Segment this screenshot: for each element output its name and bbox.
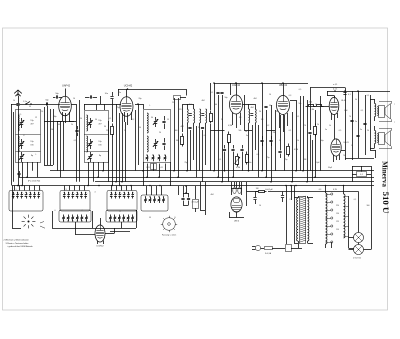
band filter FB2 box xyxy=(84,111,109,163)
svg-text:0,1: 0,1 xyxy=(219,159,222,161)
svg-text:1k: 1k xyxy=(13,100,15,102)
heater winding xyxy=(344,194,349,238)
rotary switch S2 xyxy=(22,215,45,229)
wire k16 xyxy=(304,88,311,182)
svg-text:0,5: 0,5 xyxy=(299,89,302,91)
wire k14 xyxy=(290,96,301,182)
svg-text:1M: 1M xyxy=(256,188,259,190)
wire bus 2 xyxy=(19,177,374,179)
resistor R3 xyxy=(210,111,213,171)
svg-text:2k: 2k xyxy=(317,124,319,126)
resistor R5 xyxy=(246,152,249,165)
tube V3 pins xyxy=(233,113,241,129)
IF transformer IF1 xyxy=(187,104,195,123)
wire group k29 xyxy=(231,83,285,177)
svg-text:0,3: 0,3 xyxy=(289,95,292,97)
svg-text:15: 15 xyxy=(167,119,169,121)
switch bank SB1 xyxy=(9,191,43,212)
wire k4 xyxy=(112,136,114,186)
svg-text:UCH42: UCH42 xyxy=(96,246,104,248)
capacitor C23 xyxy=(350,121,357,124)
svg-text:40: 40 xyxy=(58,124,60,126)
svg-text:0,1: 0,1 xyxy=(297,116,300,118)
wire k17 xyxy=(337,88,371,161)
svg-text:70: 70 xyxy=(349,116,351,118)
scatter labels 1 xyxy=(13,92,369,131)
svg-text:464: 464 xyxy=(211,194,214,196)
loudspeaker LS1 xyxy=(377,101,395,123)
svg-text:50: 50 xyxy=(80,118,82,120)
svg-text:10n: 10n xyxy=(105,93,108,95)
svg-text:0,1: 0,1 xyxy=(204,135,207,137)
variable capacitor C12 xyxy=(153,139,158,149)
wire antenna down xyxy=(17,110,19,186)
svg-text:5n: 5n xyxy=(325,129,327,131)
switch bank SB3 xyxy=(107,191,137,212)
svg-text:4,5k: 4,5k xyxy=(309,102,312,104)
resistor R7 xyxy=(306,102,316,107)
svg-text:10: 10 xyxy=(269,94,271,96)
svg-text:3: 3 xyxy=(66,189,67,191)
svg-text:470: 470 xyxy=(179,109,182,111)
wire left rail xyxy=(12,104,14,186)
resistor R4 xyxy=(228,132,231,145)
output transformer TR1 xyxy=(370,99,376,121)
svg-text:2n: 2n xyxy=(355,121,357,123)
resistor R11 xyxy=(256,188,267,193)
capacitor antenna coupling xyxy=(16,101,27,110)
capacitor C6 xyxy=(75,126,78,136)
svg-text:c: c xyxy=(394,122,395,124)
wire sb drop wires xyxy=(15,186,162,196)
svg-text:UAF42: UAF42 xyxy=(62,84,71,88)
svg-text:25: 25 xyxy=(315,104,317,106)
antenna xyxy=(14,90,22,103)
svg-text:0,1: 0,1 xyxy=(109,118,112,120)
wire group k33 xyxy=(300,191,359,193)
capacitor C15 xyxy=(188,128,204,129)
svg-text:30k: 30k xyxy=(176,140,179,142)
wire corner bracket xyxy=(370,150,376,158)
tube V6 pins xyxy=(334,155,340,163)
IF transformer IF2 xyxy=(200,109,207,123)
wire transformer taps xyxy=(294,198,313,244)
scale lamp LP1 xyxy=(354,233,364,243)
svg-text:0,2: 0,2 xyxy=(267,125,270,127)
svg-text:300: 300 xyxy=(175,130,178,132)
svg-text:UL41: UL41 xyxy=(341,100,347,102)
svg-text:0,1: 0,1 xyxy=(367,95,370,97)
svg-text:L: L xyxy=(150,105,151,107)
IF transformer IF3 xyxy=(249,104,257,123)
svg-text:1: 1 xyxy=(16,189,17,191)
mains plug xyxy=(252,245,261,250)
svg-text:50k: 50k xyxy=(299,103,302,105)
svg-text:50p: 50p xyxy=(225,97,228,99)
svg-text:3-11: 3-11 xyxy=(146,167,149,169)
svg-text:L: L xyxy=(36,154,37,156)
variable capacitor C4 xyxy=(19,152,34,162)
svg-text:c: c xyxy=(394,104,395,106)
svg-text:70: 70 xyxy=(343,155,345,157)
svg-text:(Pu 4.500 Hz): (Pu 4.500 Hz) xyxy=(28,181,41,183)
svg-text:5n: 5n xyxy=(119,92,121,94)
svg-text:2k: 2k xyxy=(71,124,73,126)
wire k7 xyxy=(175,98,183,177)
svg-text:464: 464 xyxy=(202,100,205,102)
wire k25 xyxy=(352,166,372,182)
svg-text:30: 30 xyxy=(151,117,153,119)
svg-text:464: 464 xyxy=(189,104,192,106)
svg-text:20p: 20p xyxy=(139,98,142,100)
loudspeaker LS2 xyxy=(377,128,391,148)
svg-text:0,5M: 0,5M xyxy=(294,149,299,151)
svg-text:50: 50 xyxy=(139,127,141,129)
potentiometer P2 xyxy=(234,154,240,167)
caption Minerva xyxy=(381,161,389,187)
tube socket diagram xyxy=(161,216,177,237)
svg-text:25p: 25p xyxy=(285,159,288,161)
svg-text:0,1: 0,1 xyxy=(361,110,364,112)
wire group k28 xyxy=(191,126,203,182)
coil L1 xyxy=(18,115,19,152)
svg-text:2: 2 xyxy=(40,189,41,191)
svg-text:Si 0,5A: Si 0,5A xyxy=(265,252,272,255)
svg-text:0,1: 0,1 xyxy=(354,199,357,201)
svg-text:0,1: 0,1 xyxy=(289,130,292,132)
wire osc top bus xyxy=(118,88,186,96)
svg-text:0,1: 0,1 xyxy=(360,174,363,176)
wire k15 xyxy=(225,143,243,182)
legend text xyxy=(4,239,34,249)
svg-text:220: 220 xyxy=(336,205,339,207)
svg-text:25: 25 xyxy=(198,127,200,129)
trimmer bank osc xyxy=(146,154,167,161)
svg-text:i gedruckt bei UKW-Betrieb: i gedruckt bei UKW-Betrieb xyxy=(8,245,34,248)
wire group k26 xyxy=(57,121,64,177)
svg-text:110: 110 xyxy=(336,229,339,231)
wire hor mid xyxy=(211,130,276,132)
tube V6 UL41 xyxy=(331,139,350,156)
svg-text:7: 7 xyxy=(82,210,83,212)
oscillator box xyxy=(144,110,171,163)
mains switch S3 xyxy=(280,245,302,252)
svg-text:0,1: 0,1 xyxy=(257,154,260,156)
svg-text:8: 8 xyxy=(120,211,121,213)
svg-text:0,5: 0,5 xyxy=(19,114,22,116)
svg-text:5n: 5n xyxy=(279,140,281,142)
svg-text:10: 10 xyxy=(259,205,261,207)
resistor R1 xyxy=(106,124,113,137)
tube V8 rectifier UY41 xyxy=(95,225,105,248)
wire k5 xyxy=(135,103,144,165)
svg-text:10: 10 xyxy=(73,98,75,100)
svg-text:20: 20 xyxy=(259,111,261,113)
potentiometer P1 xyxy=(151,164,157,170)
svg-text:9: 9 xyxy=(154,195,155,197)
svg-text:70: 70 xyxy=(304,125,306,127)
svg-text:40: 40 xyxy=(215,104,217,106)
wire FB2 top xyxy=(84,104,97,110)
svg-text:a 4,5: a 4,5 xyxy=(333,84,337,86)
svg-text:464: 464 xyxy=(251,107,254,109)
svg-text:UM 4: UM 4 xyxy=(234,221,240,223)
svg-text:300: 300 xyxy=(367,205,370,207)
capacitor group left xyxy=(181,186,190,206)
resistor R2 xyxy=(176,134,184,147)
svg-text:510 U: 510 U xyxy=(381,192,391,214)
wire k8 xyxy=(188,123,206,171)
svg-text:2×UY41: 2×UY41 xyxy=(353,257,362,260)
svg-text:30: 30 xyxy=(104,126,106,128)
svg-text:25p: 25p xyxy=(117,107,120,109)
wire sb links xyxy=(12,186,137,232)
tube V2 pins xyxy=(125,112,132,125)
tube V4 pins xyxy=(280,113,288,132)
wire k22 xyxy=(287,186,295,245)
wire group k1 xyxy=(44,106,54,166)
svg-text:2: 2 xyxy=(290,199,291,201)
wire k13 xyxy=(263,83,276,182)
resistor R8 xyxy=(314,105,330,107)
svg-text:50p: 50p xyxy=(269,105,272,107)
wire input top xyxy=(11,103,60,105)
svg-text:UL41: UL41 xyxy=(344,142,350,144)
svg-text:25: 25 xyxy=(172,102,174,104)
capacitor C1 xyxy=(45,100,49,106)
wire k12 xyxy=(243,105,256,171)
svg-text:1k: 1k xyxy=(329,125,331,127)
svg-text:30p: 30p xyxy=(54,116,57,118)
tube V4 UBC41 xyxy=(277,83,290,115)
tube V1 pins xyxy=(57,112,74,123)
wire group k2 xyxy=(71,100,80,182)
capacitor C14 xyxy=(162,138,165,150)
mains transformer core xyxy=(300,196,307,244)
scatter labels 3 xyxy=(16,189,155,213)
wire k20 xyxy=(229,182,247,218)
capacitor C18 xyxy=(260,136,263,146)
svg-text:2n: 2n xyxy=(245,131,247,133)
switch S1a xyxy=(25,101,32,104)
capacitor C16 xyxy=(216,93,223,94)
switch bank SB4 xyxy=(59,210,91,222)
capacitor bus left xyxy=(17,171,40,183)
variable capacitor C7 xyxy=(87,118,102,128)
wire k10 xyxy=(123,113,126,182)
wire k19 xyxy=(75,228,115,235)
svg-text:6: 6 xyxy=(55,210,56,212)
svg-text:20: 20 xyxy=(367,130,369,132)
wire right top rails xyxy=(310,88,390,96)
band filter FB1 box xyxy=(16,110,41,163)
svg-text:1: 1 xyxy=(297,210,298,212)
capacitor C19 xyxy=(269,136,272,146)
svg-text:Fassung v. unten: Fassung v. unten xyxy=(162,234,176,237)
switch bank SB9 xyxy=(141,195,168,211)
capacitor cluster det xyxy=(223,145,244,155)
svg-text:0,5: 0,5 xyxy=(339,130,342,132)
svg-text:5n: 5n xyxy=(360,129,362,131)
svg-text:3n: 3n xyxy=(246,135,248,137)
svg-text:4×0,1µF: 4×0,1µF xyxy=(191,201,199,204)
caption 510U xyxy=(381,192,391,214)
svg-text:0,3M: 0,3M xyxy=(310,109,314,111)
voltage selector winding xyxy=(326,193,340,244)
svg-text:2,4: 2,4 xyxy=(41,111,44,113)
svg-text:12: 12 xyxy=(35,117,37,119)
capacitor C24 xyxy=(356,136,359,137)
svg-text:0,1: 0,1 xyxy=(74,140,77,142)
capacitor C21 xyxy=(308,133,311,171)
svg-text:2 Wechsel = Wechselraster: 2 Wechsel = Wechselraster xyxy=(4,239,30,242)
wire bus 1 xyxy=(50,170,374,172)
capacitor C26 xyxy=(352,172,371,177)
variable capacitor C11 xyxy=(153,117,158,127)
svg-text:15k: 15k xyxy=(51,129,54,131)
svg-text:UCH42: UCH42 xyxy=(124,84,133,88)
output transformer TR2 xyxy=(370,126,376,149)
label 4x01 xyxy=(191,188,273,204)
svg-text:2n: 2n xyxy=(221,119,223,121)
coil L3 xyxy=(147,113,148,152)
svg-text:50µ: 50µ xyxy=(320,140,323,142)
wire top bus right xyxy=(214,82,308,84)
wire k6 xyxy=(148,164,166,178)
svg-text:125: 125 xyxy=(336,221,339,223)
svg-text:UBC41: UBC41 xyxy=(279,83,288,87)
svg-text:464: 464 xyxy=(181,126,184,128)
capacitor C5 xyxy=(53,93,62,99)
svg-text:50: 50 xyxy=(95,119,97,121)
svg-text:0,1M: 0,1M xyxy=(228,125,232,127)
switch bank SB2 xyxy=(60,191,90,212)
svg-text:0,1: 0,1 xyxy=(348,94,351,96)
capacitor C22 xyxy=(343,93,350,97)
wire magic eye anode leads xyxy=(235,182,240,187)
tube V7 magic eye UM4 xyxy=(231,197,242,223)
labels det xyxy=(245,131,299,159)
variable capacitor C3 xyxy=(19,139,35,149)
wire FB2 verticals xyxy=(89,162,104,186)
label 63v xyxy=(333,189,338,191)
svg-text:25p: 25p xyxy=(185,162,188,164)
switch bank SB5 xyxy=(106,210,137,222)
svg-text:20: 20 xyxy=(159,132,161,134)
label lamps xyxy=(353,257,362,260)
scatter labels 4 xyxy=(19,89,370,219)
tube V8 pins xyxy=(98,241,104,245)
tube V1 UAF42 xyxy=(59,84,72,116)
wire mains xyxy=(299,243,354,249)
svg-text:3 Raste = Tastenschalter: 3 Raste = Tastenschalter xyxy=(6,242,29,245)
capacitor C17 xyxy=(264,105,272,108)
variable capacitor C8 xyxy=(87,139,102,149)
grid cap small box xyxy=(174,96,187,100)
resistor R9 xyxy=(314,110,317,177)
magic eye anodes xyxy=(233,187,241,193)
wire bus 4 xyxy=(12,185,374,187)
labels B+ xyxy=(333,84,337,91)
capacitor C27 xyxy=(85,95,97,98)
svg-text:3-11: 3-11 xyxy=(159,167,162,169)
wire k24 xyxy=(349,182,372,250)
svg-text:0,1: 0,1 xyxy=(211,92,214,94)
scatter labels 2 xyxy=(146,159,333,169)
svg-text:4×0,1µF: 4×0,1µF xyxy=(265,188,273,191)
capacitor C20 xyxy=(278,147,281,158)
svg-text:0,5M: 0,5M xyxy=(236,167,240,169)
svg-text:150: 150 xyxy=(336,213,339,215)
capacitor C10 xyxy=(105,92,114,104)
wire k11 xyxy=(211,82,223,182)
svg-text:1n: 1n xyxy=(124,130,126,132)
tube V5 UL41 xyxy=(329,96,347,115)
fuse F1 xyxy=(261,247,280,256)
wire k9 xyxy=(183,89,187,105)
wire group k27 xyxy=(109,110,136,186)
resistor R10 xyxy=(193,193,199,212)
wire hor top-left xyxy=(44,96,112,122)
svg-text:6,3: 6,3 xyxy=(319,189,322,191)
capacitor C25 xyxy=(363,124,366,125)
wire FB1 verticals xyxy=(23,162,38,186)
tube V5 pins xyxy=(332,113,338,139)
mains transformer secondary xyxy=(308,196,309,243)
svg-text:1n: 1n xyxy=(351,145,353,147)
svg-text:5: 5 xyxy=(120,194,121,196)
wire k3 xyxy=(112,104,121,182)
wire k21 xyxy=(247,191,301,193)
svg-text:464: 464 xyxy=(254,98,257,100)
wire group k30 xyxy=(313,96,321,182)
bus junction dots xyxy=(17,170,316,186)
svg-text:50k: 50k xyxy=(239,130,242,132)
capacitor row mid xyxy=(253,192,284,205)
coil L2 xyxy=(87,115,88,152)
tube V3 UAF42 xyxy=(230,83,243,114)
capacitor C13 xyxy=(162,116,165,129)
scale lamp LP2 xyxy=(354,245,364,255)
resistor R6 xyxy=(287,144,290,157)
svg-text:4: 4 xyxy=(95,192,96,194)
svg-text:0,2: 0,2 xyxy=(132,119,135,121)
wire bus 3 xyxy=(95,181,374,183)
wire group k32 xyxy=(179,182,206,215)
variable capacitor C2 xyxy=(19,118,35,128)
junction dots extra xyxy=(98,82,359,187)
wire k18 xyxy=(335,96,375,159)
tube V2 UCH42 xyxy=(120,84,133,117)
mains transformer primary xyxy=(297,196,299,243)
svg-text:10n: 10n xyxy=(249,162,252,164)
svg-text:1k: 1k xyxy=(297,140,299,142)
wire k23 xyxy=(326,186,349,248)
variable capacitor C9 xyxy=(87,152,102,162)
svg-text:Minerva: Minerva xyxy=(381,161,389,187)
svg-text:5k: 5k xyxy=(355,99,357,101)
svg-text:25p: 25p xyxy=(266,157,269,159)
wire mid band xyxy=(144,162,171,186)
